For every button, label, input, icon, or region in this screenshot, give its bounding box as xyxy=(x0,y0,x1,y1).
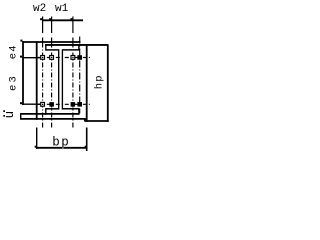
extension col1 dash xyxy=(42,38,44,43)
plate right edge xyxy=(86,44,88,122)
extension row2 left xyxy=(22,103,40,105)
ue bracket vertical xyxy=(20,113,22,119)
flange2 top face left xyxy=(46,108,58,110)
tick stub col1 xyxy=(42,17,44,22)
extension col2 solid upper xyxy=(51,21,53,33)
extension col1 solid upper xyxy=(42,21,44,33)
svg-text:e4: e4 xyxy=(7,44,19,59)
plate left edge xyxy=(36,41,38,120)
bolt3 row1 xyxy=(71,56,75,60)
svg-text:u: u xyxy=(3,111,17,119)
bolt4 row2 xyxy=(77,102,82,107)
extension e4 top / plate top left xyxy=(22,41,80,43)
flange1 bottom face left xyxy=(46,49,58,51)
web left wall xyxy=(58,49,60,109)
bp dimension line xyxy=(36,147,87,149)
tick blob hp bottom xyxy=(84,119,86,121)
svg-text:w2: w2 xyxy=(33,3,46,15)
tick stub col2 xyxy=(51,17,53,22)
tick blob row2 xyxy=(20,102,22,104)
bolt1 row2 xyxy=(41,102,45,106)
extension col3 dash xyxy=(72,38,74,43)
flange top face + hp extension xyxy=(45,44,108,46)
bp right extension xyxy=(86,128,88,152)
tick blob col3 xyxy=(70,18,72,20)
hp dimension line xyxy=(107,44,109,122)
bolt centerline col3 xyxy=(72,43,74,128)
dimension line top (w2/w1) xyxy=(42,19,83,21)
plate bottom edge xyxy=(20,118,87,120)
tick blob col1 xyxy=(40,18,42,20)
svg-text:w1: w1 xyxy=(55,3,69,15)
tick blob e4 top xyxy=(20,40,22,42)
bolt2 row1 xyxy=(50,56,54,60)
bolt row1 centerline xyxy=(38,57,91,59)
extension col3 solid upper xyxy=(72,21,74,33)
flange1 bottom face right xyxy=(63,49,79,51)
left dimension line (e4/e3) xyxy=(22,41,24,105)
extension col2 dash xyxy=(51,38,53,43)
svg-text:bp: bp xyxy=(52,135,70,149)
tick stub col3 xyxy=(72,17,74,22)
bolt centerline col1 xyxy=(42,43,44,128)
tick blob col2 xyxy=(49,18,51,20)
web right wall xyxy=(61,49,63,109)
flange1 left tip xyxy=(45,44,47,50)
bolt centerline col2 xyxy=(51,43,53,129)
tick blob bp right xyxy=(85,146,87,148)
bolt3 row2 xyxy=(71,102,76,107)
svg-text:hp: hp xyxy=(94,74,106,89)
svg-text:e3: e3 xyxy=(7,74,19,91)
hp bottom extension xyxy=(85,120,109,122)
bolt4 row1 xyxy=(77,55,82,60)
flange2 left tip xyxy=(45,108,47,115)
flange2 bottom face + ue extension xyxy=(20,113,79,115)
tick blob bp left xyxy=(35,146,37,148)
bolt centerline col4 xyxy=(79,37,81,114)
bolt1 row1 xyxy=(41,56,45,60)
bp left extension xyxy=(36,128,38,149)
bolt2 row2 xyxy=(49,102,54,107)
flange2 top face right xyxy=(63,108,79,110)
flange2 right tip xyxy=(78,108,80,115)
bolt row2 centerline xyxy=(38,103,91,105)
tick blob row1 xyxy=(20,56,22,58)
extension row1 left xyxy=(22,57,40,59)
flange1 right tip xyxy=(78,44,80,50)
